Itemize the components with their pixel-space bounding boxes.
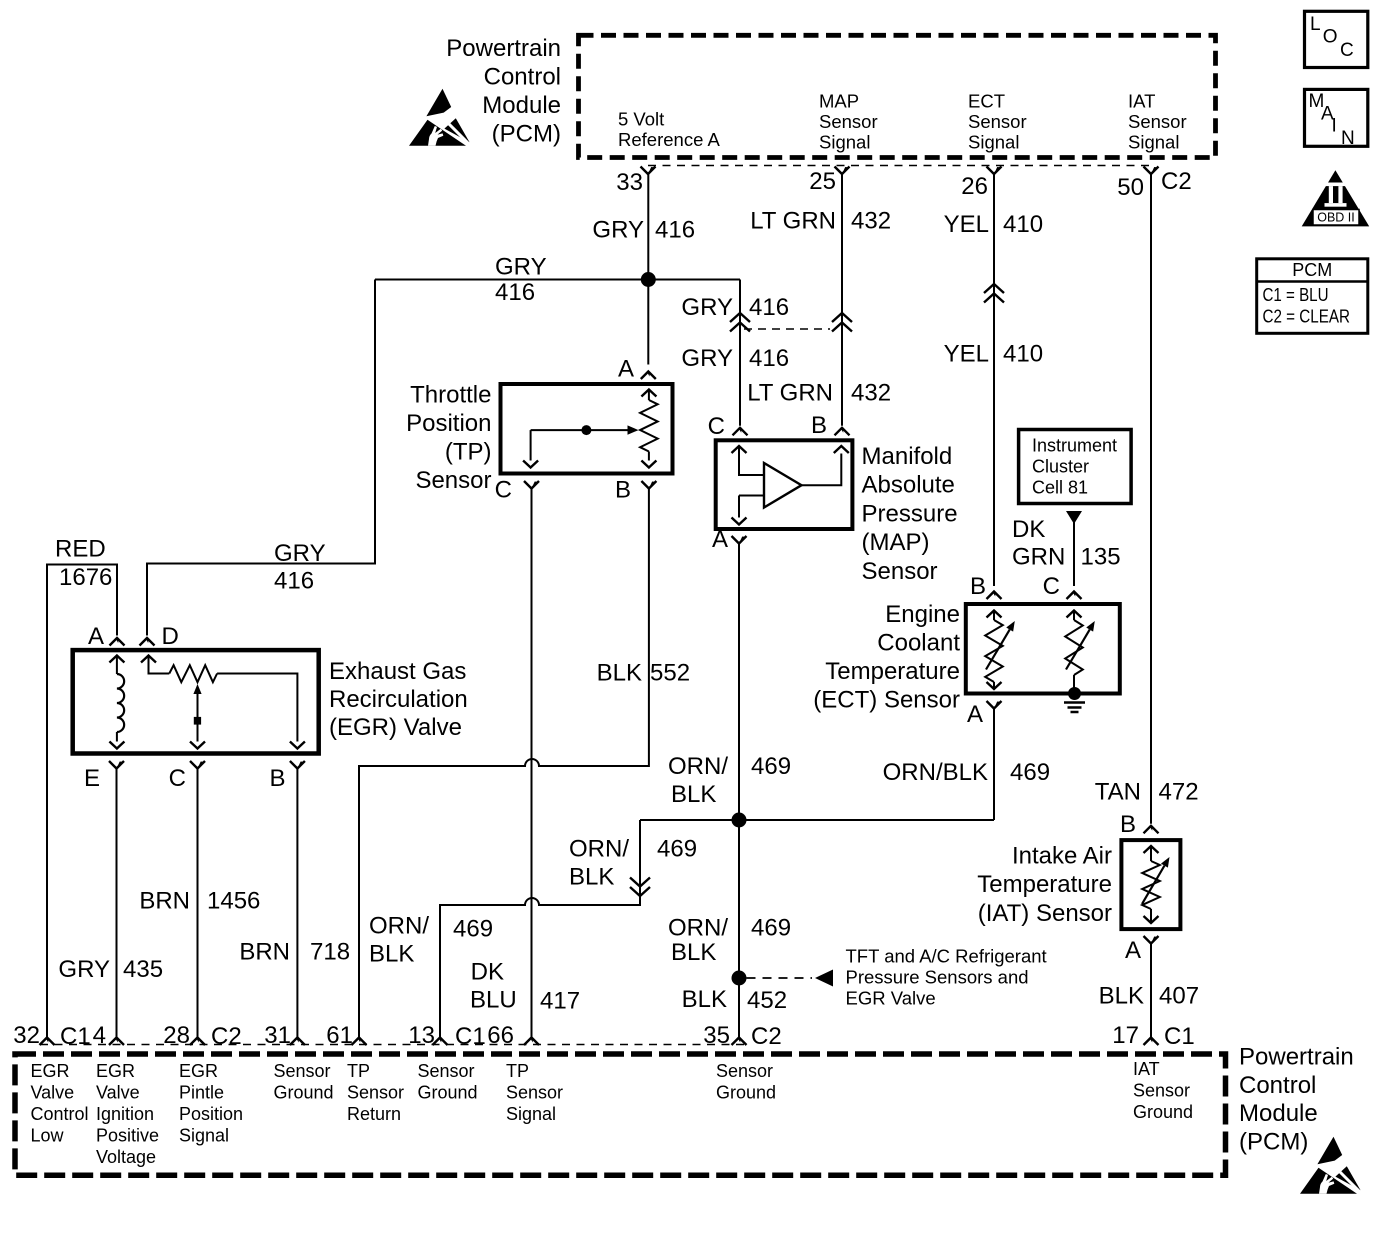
pin B EGR valve — [290, 761, 305, 769]
svg-text:LT GRN: LT GRN — [747, 380, 833, 407]
MAP op-amp output — [802, 454, 842, 486]
wire DK GRN 135 to ECT C — [1066, 511, 1082, 524]
svg-text:EGR Valve: EGR Valve — [846, 988, 936, 1009]
svg-text:Valve: Valve — [96, 1083, 140, 1103]
svg-text:4: 4 — [93, 1022, 106, 1049]
svg-text:Pintle: Pintle — [179, 1083, 224, 1103]
svg-text:472: 472 — [1159, 779, 1199, 806]
wire GRY 435 EGR E to pin 4 — [116, 769, 118, 1038]
svg-text:A: A — [712, 526, 728, 553]
dashed leader to note — [747, 977, 813, 979]
wire TAN 472 pin50 to IAT B — [1150, 174, 1152, 824]
chevrons GRY wire — [730, 313, 750, 322]
svg-text:N: N — [1341, 128, 1355, 149]
svg-text:Powertrain: Powertrain — [1239, 1044, 1354, 1071]
svg-text:Ignition: Ignition — [96, 1104, 154, 1124]
svg-text:33: 33 — [616, 169, 643, 196]
svg-text:C2: C2 — [1161, 168, 1192, 195]
svg-text:1676: 1676 — [59, 564, 112, 591]
svg-text:Ground: Ground — [274, 1083, 334, 1103]
dashed tie line GRY-LTGRN — [744, 328, 830, 330]
svg-text:Exhaust Gas: Exhaust Gas — [329, 658, 466, 685]
svg-text:Sensor: Sensor — [819, 111, 878, 132]
svg-text:A: A — [967, 701, 983, 728]
PCM bottom connector dashed box — [15, 1054, 1226, 1175]
svg-text:452: 452 — [747, 987, 787, 1014]
svg-text:C2 = CLEAR: C2 = CLEAR — [1263, 307, 1351, 327]
chevrons ORN/BLK drop — [630, 878, 650, 887]
wire ORN/BLK 469 MAP A to pin 35 — [738, 544, 740, 1038]
svg-text:PCM: PCM — [1292, 260, 1332, 280]
TP potentiometer resistor — [641, 390, 656, 397]
svg-text:416: 416 — [274, 568, 314, 595]
svg-text:Temperature: Temperature — [825, 658, 960, 685]
pin A TP sensor — [641, 372, 656, 380]
svg-text:B: B — [1120, 811, 1136, 838]
svg-text:410: 410 — [1003, 211, 1043, 238]
pin 13 connector — [433, 1038, 448, 1046]
svg-text:(ECT) Sensor: (ECT) Sensor — [813, 687, 960, 714]
svg-text:C1: C1 — [455, 1023, 486, 1050]
EGR pintle wiper — [193, 684, 201, 694]
wire BLK 552 TP B to pin 61 — [359, 489, 649, 1038]
svg-text:Module: Module — [1239, 1100, 1318, 1127]
svg-text:Module: Module — [482, 92, 561, 119]
svg-text:BRN: BRN — [239, 939, 290, 966]
PCM top connector dashed box — [579, 35, 1216, 157]
svg-text:YEL: YEL — [944, 211, 989, 238]
svg-text:469: 469 — [453, 916, 493, 943]
svg-text:552: 552 — [650, 660, 690, 687]
ECT thermistor 2 — [1067, 611, 1082, 618]
top connector thin dashed line — [648, 165, 1151, 167]
svg-text:469: 469 — [657, 836, 697, 863]
junction dot ORN/BLK upper — [732, 813, 747, 828]
svg-text:50: 50 — [1117, 174, 1144, 201]
svg-text:416: 416 — [495, 279, 535, 306]
MAP op-amp input bottom — [739, 495, 763, 497]
EGR solenoid coil — [109, 656, 124, 663]
svg-text:C: C — [169, 765, 186, 792]
svg-text:Temperature: Temperature — [977, 871, 1112, 898]
svg-text:13: 13 — [408, 1022, 435, 1049]
svg-text:Cluster: Cluster — [1032, 457, 1089, 477]
svg-text:Manifold: Manifold — [862, 443, 953, 470]
pin B IAT sensor — [1144, 826, 1159, 834]
svg-text:1456: 1456 — [207, 888, 260, 915]
svg-text:Signal: Signal — [179, 1126, 229, 1146]
svg-text:Position: Position — [179, 1104, 243, 1124]
svg-text:B: B — [615, 477, 631, 504]
pin B MAP sensor — [835, 428, 850, 436]
svg-text:Sensor: Sensor — [415, 467, 491, 494]
svg-text:435: 435 — [123, 956, 163, 983]
svg-text:RED: RED — [55, 536, 106, 563]
ECT sensor box — [966, 604, 1120, 694]
svg-text:28: 28 — [163, 1022, 190, 1049]
svg-text:B: B — [970, 573, 986, 600]
svg-text:GRY: GRY — [681, 345, 733, 372]
svg-text:Ground: Ground — [1133, 1102, 1193, 1122]
MAP op-amp input top — [732, 446, 747, 453]
wire BLK 407 IAT A to pin 17 — [1150, 944, 1152, 1038]
wire GRY 416 pin33 to TP sensor A — [647, 174, 649, 365]
pin C TP sensor — [524, 481, 539, 489]
svg-text:432: 432 — [851, 380, 891, 407]
pin A EGR valve — [110, 638, 125, 646]
svg-text:I: I — [1332, 116, 1337, 137]
svg-text:(TP): (TP) — [445, 439, 492, 466]
svg-text:Powertrain: Powertrain — [446, 35, 561, 62]
svg-text:31: 31 — [264, 1022, 291, 1049]
wire ORN/BLK 469 pin13 branch — [440, 820, 640, 1038]
svg-text:GRY: GRY — [495, 254, 547, 281]
svg-text:Return: Return — [347, 1104, 401, 1124]
svg-text:TFT and A/C Refrigerant: TFT and A/C Refrigerant — [846, 946, 1047, 967]
chevrons LT GRN wire — [832, 313, 852, 322]
pin C MAP sensor — [733, 428, 748, 436]
svg-text:407: 407 — [1159, 983, 1199, 1010]
ECT thermistor 1 — [987, 611, 1002, 618]
pin 25 connector — [835, 167, 850, 175]
pin 17 connector — [1144, 1038, 1159, 1046]
svg-text:Sensor: Sensor — [347, 1083, 404, 1103]
svg-text:ORN/BLK: ORN/BLK — [883, 759, 988, 786]
svg-text:C1 = BLU: C1 = BLU — [1263, 285, 1329, 305]
svg-text:Sensor: Sensor — [862, 558, 938, 585]
svg-text:MAP: MAP — [819, 91, 859, 112]
svg-text:C: C — [1340, 40, 1354, 61]
svg-text:DK: DK — [1012, 516, 1045, 543]
svg-text:Voltage: Voltage — [96, 1147, 156, 1167]
svg-text:BLK: BLK — [671, 939, 716, 966]
svg-text:C: C — [708, 413, 725, 440]
svg-text:TP: TP — [347, 1061, 370, 1081]
svg-text:718: 718 — [310, 939, 350, 966]
svg-text:Instrument: Instrument — [1032, 436, 1117, 456]
svg-text:416: 416 — [749, 294, 789, 321]
svg-text:BLK: BLK — [1099, 983, 1144, 1010]
pin 33 connector — [641, 167, 656, 175]
ESD warning symbol bottom-right — [1300, 1137, 1361, 1194]
chevrons YEL wire — [984, 284, 1004, 293]
svg-text:ORN/: ORN/ — [369, 913, 429, 940]
svg-text:17: 17 — [1112, 1022, 1139, 1049]
svg-text:Low: Low — [31, 1126, 65, 1146]
svg-text:Pressure Sensors and: Pressure Sensors and — [846, 967, 1029, 988]
svg-text:L: L — [1310, 14, 1321, 35]
EGR pintle potentiometer — [141, 656, 156, 663]
svg-text:Signal: Signal — [968, 132, 1019, 153]
svg-text:Recirculation: Recirculation — [329, 686, 468, 713]
legend LOC box — [1305, 11, 1368, 67]
junction dot ORN/BLK lower — [732, 971, 747, 986]
pin A IAT sensor — [1144, 936, 1159, 944]
svg-text:IAT: IAT — [1128, 91, 1155, 112]
svg-text:Coolant: Coolant — [877, 630, 960, 657]
pin 26 connector — [987, 167, 1002, 175]
pin C EGR valve — [190, 761, 205, 769]
svg-text:BLK: BLK — [597, 660, 642, 687]
svg-text:Sensor: Sensor — [1128, 111, 1187, 132]
svg-text:410: 410 — [1003, 341, 1043, 368]
svg-text:C: C — [1043, 573, 1060, 600]
wire YEL 410 pin26 to ECT B — [993, 174, 995, 586]
svg-text:Position: Position — [406, 410, 491, 437]
svg-text:469: 469 — [1010, 759, 1050, 786]
svg-text:(MAP): (MAP) — [862, 529, 930, 556]
Instrument Cluster box — [1019, 430, 1132, 504]
svg-text:C1: C1 — [60, 1023, 91, 1050]
svg-text:Sensor: Sensor — [418, 1061, 475, 1081]
svg-text:BLK: BLK — [671, 781, 716, 808]
svg-text:EGR: EGR — [31, 1061, 70, 1081]
svg-text:C2: C2 — [211, 1023, 242, 1050]
wire LT GRN 432 pin25 to MAP B — [841, 174, 843, 426]
pin 4 connector — [109, 1038, 124, 1046]
svg-text:35: 35 — [703, 1022, 730, 1049]
svg-text:Valve: Valve — [31, 1083, 75, 1103]
wire BRN 718 EGR B to pin 31 — [296, 769, 298, 1038]
svg-text:A: A — [1125, 937, 1141, 964]
pin D EGR valve — [140, 638, 155, 646]
svg-text:O: O — [1323, 27, 1338, 48]
svg-text:469: 469 — [751, 753, 791, 780]
pin 35 connector — [732, 1038, 747, 1046]
pin B ECT sensor — [987, 592, 1002, 600]
svg-text:Sensor: Sensor — [716, 1061, 773, 1081]
pin 61 connector — [352, 1038, 367, 1046]
pin 32 connector — [40, 1038, 55, 1046]
svg-text:BRN: BRN — [139, 888, 190, 915]
svg-text:25: 25 — [809, 168, 836, 195]
pin C ECT sensor — [1067, 592, 1082, 600]
svg-text:Cell 81: Cell 81 — [1032, 478, 1088, 498]
svg-text:BLK: BLK — [369, 941, 414, 968]
svg-text:Throttle: Throttle — [410, 382, 491, 409]
svg-text:GRY: GRY — [58, 956, 110, 983]
legend OBD II triangle — [1302, 170, 1370, 226]
svg-text:Control: Control — [1239, 1072, 1316, 1099]
IAT sensor box — [1121, 840, 1180, 929]
junction dot GRY 416 — [641, 272, 656, 287]
svg-text:ECT: ECT — [968, 91, 1005, 112]
svg-text:32: 32 — [13, 1022, 40, 1049]
svg-text:Control: Control — [484, 64, 561, 91]
svg-text:26: 26 — [961, 173, 988, 200]
svg-text:TP: TP — [506, 1061, 529, 1081]
svg-text:OBD II: OBD II — [1317, 211, 1355, 225]
svg-text:(PCM): (PCM) — [492, 121, 561, 148]
ESD warning symbol top-left — [409, 89, 470, 146]
svg-text:66: 66 — [487, 1022, 514, 1049]
svg-text:YEL: YEL — [944, 341, 989, 368]
svg-text:A: A — [88, 623, 104, 650]
wire GRY 416 horizontal branch — [375, 279, 740, 281]
svg-text:416: 416 — [749, 345, 789, 372]
TP sensor box — [501, 384, 673, 474]
svg-text:Ground: Ground — [418, 1083, 478, 1103]
svg-text:135: 135 — [1081, 544, 1121, 571]
svg-text:Signal: Signal — [1128, 132, 1179, 153]
svg-text:GRY: GRY — [681, 294, 733, 321]
svg-text:5 Volt: 5 Volt — [618, 109, 664, 130]
svg-text:BLK: BLK — [682, 986, 727, 1013]
svg-text:D: D — [162, 623, 179, 650]
svg-text:GRN: GRN — [1012, 544, 1065, 571]
svg-text:EGR: EGR — [96, 1061, 135, 1081]
svg-text:(EGR) Valve: (EGR) Valve — [329, 714, 462, 741]
pin 50 connector — [1144, 167, 1159, 175]
pin A MAP sensor — [732, 536, 747, 544]
svg-text:(IAT) Sensor: (IAT) Sensor — [978, 900, 1112, 927]
wire BRN 1456 EGR C to pin 28 — [197, 769, 199, 1038]
legend PCM connector colors box — [1257, 259, 1368, 334]
svg-text:IAT: IAT — [1133, 1059, 1160, 1079]
svg-text:61: 61 — [326, 1022, 353, 1049]
svg-text:469: 469 — [751, 915, 791, 942]
ECT internal ground — [1068, 687, 1081, 700]
IAT thermistor — [1144, 846, 1159, 853]
wire RED 1676 pin32 to EGR A — [47, 565, 117, 1038]
svg-text:C1: C1 — [1164, 1023, 1195, 1050]
svg-text:Reference A: Reference A — [618, 129, 720, 150]
wire DK BLU 417 TP C to pin 66 — [531, 489, 533, 1038]
svg-text:ORN/: ORN/ — [569, 836, 629, 863]
pin 31 connector — [290, 1038, 305, 1046]
svg-text:Sensor: Sensor — [274, 1061, 331, 1081]
svg-text:Absolute: Absolute — [862, 472, 955, 499]
svg-text:E: E — [84, 765, 100, 792]
svg-text:432: 432 — [851, 208, 891, 235]
svg-text:Signal: Signal — [506, 1104, 556, 1124]
svg-text:EGR: EGR — [179, 1061, 218, 1081]
svg-text:ORN/: ORN/ — [668, 915, 728, 942]
svg-text:C: C — [495, 477, 512, 504]
svg-text:Sensor: Sensor — [968, 111, 1027, 132]
svg-text:Intake Air: Intake Air — [1012, 843, 1112, 870]
svg-text:Signal: Signal — [819, 132, 870, 153]
svg-text:GRY: GRY — [592, 217, 644, 244]
svg-text:BLU: BLU — [470, 987, 517, 1014]
svg-text:Ground: Ground — [716, 1083, 776, 1103]
wire ORN/BLK 469 horizontal to ECT A — [640, 819, 994, 821]
svg-text:Positive: Positive — [96, 1126, 159, 1146]
svg-text:417: 417 — [540, 988, 580, 1015]
svg-text:Sensor: Sensor — [1133, 1081, 1190, 1101]
svg-text:C2: C2 — [751, 1023, 782, 1050]
wire GRY 416 branch to MAP C — [739, 280, 741, 426]
svg-text:Pressure: Pressure — [862, 500, 958, 527]
svg-text:GRY: GRY — [274, 540, 326, 567]
bottom connector thin dashed line — [40, 1044, 745, 1046]
wire GRY 416 down-left branch to EGR D — [147, 280, 375, 636]
pin B TP sensor — [641, 481, 656, 489]
svg-text:DK: DK — [471, 959, 504, 986]
pin A ECT sensor — [987, 701, 1002, 709]
wire ORN/BLK 469 ECT A vertical — [993, 709, 995, 821]
svg-text:TAN: TAN — [1095, 779, 1141, 806]
EGR valve box — [73, 650, 319, 753]
svg-text:LT GRN: LT GRN — [750, 208, 836, 235]
svg-text:416: 416 — [655, 217, 695, 244]
svg-text:B: B — [811, 412, 827, 439]
svg-text:(PCM): (PCM) — [1239, 1128, 1308, 1155]
TP wiper arm — [531, 429, 628, 431]
pin 66 connector — [524, 1038, 539, 1046]
svg-text:A: A — [618, 356, 634, 383]
svg-text:Sensor: Sensor — [506, 1083, 563, 1103]
svg-text:Engine: Engine — [885, 601, 960, 628]
MAP sensor box — [716, 440, 853, 529]
svg-text:BLK: BLK — [569, 864, 614, 891]
svg-text:ORN/: ORN/ — [668, 753, 728, 780]
MAP op-amp triangle — [764, 463, 802, 508]
pin 28 connector — [190, 1038, 205, 1046]
svg-text:Control: Control — [31, 1104, 89, 1124]
pin E EGR valve — [109, 761, 124, 769]
svg-text:B: B — [269, 765, 285, 792]
legend MAIN box — [1305, 89, 1368, 146]
